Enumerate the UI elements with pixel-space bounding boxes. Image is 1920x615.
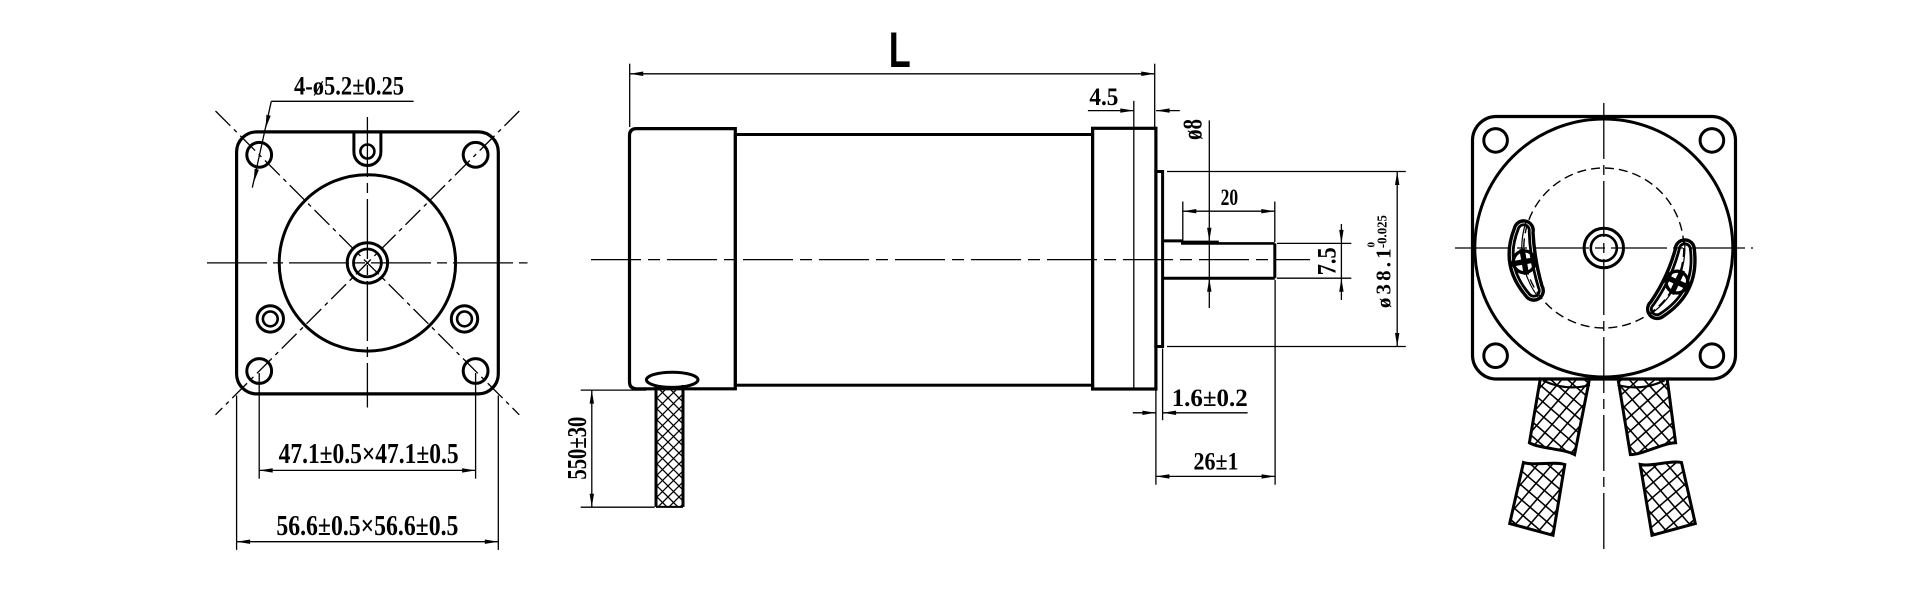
- rear view corner hole at 1711.9,140.4: [1700, 129, 1724, 153]
- left view vertical centerline: [366, 117, 368, 408]
- dimension 56.6x56.6: [236, 396, 238, 550]
- side view front end cap: [1093, 128, 1156, 389]
- rear view dashed circle: [1524, 168, 1684, 328]
- shaft outline: [1163, 239, 1183, 242]
- svg-text:550±30: 550±30: [562, 417, 592, 480]
- rear view corner hole at 1711.9,355.7: [1700, 344, 1724, 368]
- left view diagonal centerline 1: [216, 111, 520, 415]
- svg-text:1.6±0.2: 1.6±0.2: [1172, 385, 1248, 412]
- svg-text:ø8: ø8: [1178, 119, 1208, 140]
- left view shaft hub outer circle: [347, 243, 387, 283]
- svg-text:4-ø5.2±0.25: 4-ø5.2±0.25: [294, 72, 404, 101]
- left view pilot circle: [279, 175, 455, 351]
- left view corner mounting hole at 259.2,371.0: [247, 359, 272, 384]
- left view corner mounting hole at 259.2,154.8: [247, 142, 272, 167]
- left view corner mounting hole at 475.6,154.8: [463, 142, 488, 167]
- rear view corner hole at 1495.6,355.7: [1484, 344, 1508, 368]
- left view horizontal centerline: [207, 262, 528, 264]
- rear view right arc slot: [1648, 240, 1695, 319]
- side view motor body: [735, 135, 1092, 386]
- left view diagonal centerline 2: [216, 111, 520, 415]
- svg-text:56.6±0.5×56.6±0.5: 56.6±0.5×56.6±0.5: [276, 511, 458, 542]
- dimension dia38.1: [1167, 171, 1406, 173]
- svg-text:7.5: 7.5: [1313, 247, 1342, 275]
- rear view body circle: [1475, 119, 1733, 377]
- svg-text:0: 0: [1366, 241, 1378, 247]
- svg-text:L: L: [889, 22, 911, 78]
- side view pilot boss: [1156, 172, 1163, 347]
- rear view hub inner circle: [1591, 235, 1617, 261]
- svg-text:26±1: 26±1: [1194, 448, 1239, 475]
- svg-text:47.1±0.5×47.1±0.5: 47.1±0.5×47.1±0.5: [279, 439, 459, 470]
- side view rear end cap: [630, 129, 736, 389]
- left view top notch slot: [352, 131, 355, 152]
- rear view left arc slot: [1509, 221, 1543, 300]
- rear view flange outline: [1473, 117, 1736, 380]
- rear view left slot screw: [1513, 251, 1535, 273]
- svg-text:ø38.1: ø38.1: [1371, 245, 1395, 308]
- svg-text:20: 20: [1221, 185, 1239, 210]
- dimension 47.1x47.1: [258, 373, 260, 479]
- left view assembly screw hole at 464.5,318.9: [451, 306, 477, 332]
- rear view right slot screw: [1666, 271, 1688, 293]
- rear view hub outer circle: [1584, 228, 1623, 267]
- rear view corner hole at 1495.6,140.4: [1484, 129, 1508, 153]
- cable grommet: [646, 372, 698, 387]
- svg-text:4.5: 4.5: [1089, 84, 1118, 111]
- side view horizontal centerline: [591, 259, 1310, 261]
- left view shaft hub inner circle: [354, 249, 382, 277]
- left view flange outline: [237, 132, 499, 394]
- left view corner mounting hole at 475.6,371.0: [463, 359, 488, 384]
- left view assembly screw hole at 270.3,318.9: [257, 306, 283, 332]
- rear view horizontal centerline: [1455, 247, 1753, 249]
- rear view vertical centerline: [1603, 103, 1605, 553]
